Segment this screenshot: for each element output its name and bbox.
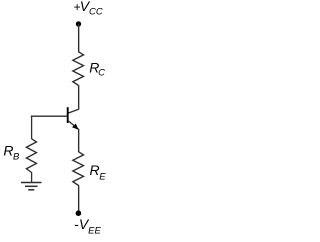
wire VCC to RC [78, 24, 80, 52]
wire emitter to RE [78, 129, 80, 152]
transistor Q1 emitter lead [68, 121, 79, 130]
svg-text:RE: RE [90, 162, 107, 182]
svg-text:RC: RC [89, 59, 105, 78]
transistor Q1 collector lead [68, 109, 79, 113]
svg-text:-VEE: -VEE [74, 216, 101, 236]
resistor RC [73, 52, 84, 86]
wire RB to ground [31, 172, 33, 182]
transistor Q1 base bar [67, 107, 69, 123]
resistor RE [73, 152, 84, 186]
svg-text:+VCC: +VCC [74, 0, 103, 18]
node -VEE terminal dot [76, 210, 82, 216]
node +VCC terminal dot [76, 21, 81, 26]
ground symbol [21, 183, 42, 190]
svg-text:RB: RB [3, 142, 20, 162]
resistor RB [26, 139, 36, 173]
wire base corner down to RB [31, 116, 33, 140]
wire RC to collector [78, 85, 80, 109]
wire RE to -VEE [78, 185, 80, 213]
transistor Q1 base lead wire [31, 115, 67, 117]
transistor Q1 emitter arrowhead [73, 124, 78, 129]
